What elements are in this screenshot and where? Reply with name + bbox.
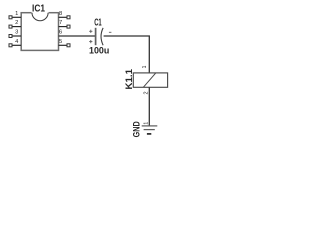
svg-text:1: 1 [142, 65, 148, 68]
svg-text:1: 1 [143, 122, 149, 125]
svg-text:7: 7 [59, 20, 62, 26]
svg-text:C1: C1 [94, 18, 102, 29]
svg-text:100u: 100u [89, 46, 109, 57]
svg-text:2: 2 [15, 20, 18, 26]
svg-text:5: 5 [59, 39, 62, 45]
svg-text:1: 1 [15, 11, 18, 17]
svg-text:K1.1: K1.1 [124, 68, 135, 89]
svg-text:2: 2 [144, 91, 150, 94]
svg-text:IC1: IC1 [32, 4, 45, 15]
svg-text:GND: GND [132, 121, 142, 137]
svg-text:8: 8 [59, 11, 62, 17]
svg-text:6: 6 [59, 30, 62, 36]
svg-text:3: 3 [15, 30, 18, 36]
